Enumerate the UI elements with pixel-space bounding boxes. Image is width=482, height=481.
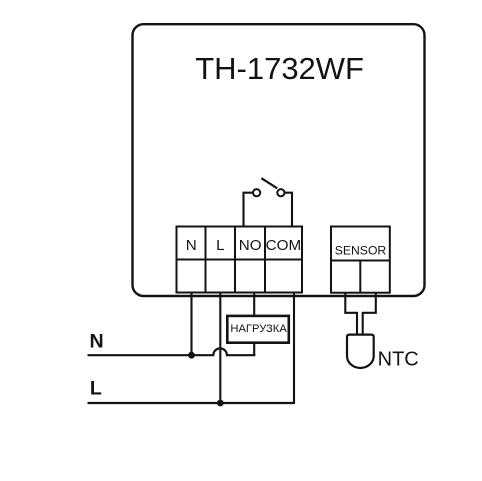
svg-text:НАГРУЗКА: НАГРУЗКА — [230, 323, 287, 335]
svg-text:N: N — [186, 237, 197, 254]
svg-text:COM: COM — [266, 237, 301, 254]
svg-text:TH-1732WF: TH-1732WF — [195, 51, 364, 86]
svg-text:N: N — [90, 331, 104, 353]
wire: N terminal down to N line — [190, 293, 192, 356]
svg-text:NTC: NTC — [378, 348, 419, 370]
junction dot: N wire on N line — [188, 352, 195, 359]
wire: NO terminal down to load box — [253, 293, 255, 317]
N line (neutral bus) with hop over L wire — [88, 348, 255, 355]
wire: switch right contact down to COM terminal — [285, 193, 293, 227]
wire: L terminal down to L line (crosses N line at hop) — [219, 293, 221, 404]
switch contact circle left — [253, 189, 260, 196]
switch contact circle right — [277, 189, 284, 196]
wire: NO terminal up to switch left contact — [244, 193, 254, 227]
svg-text:L: L — [216, 237, 224, 254]
NTC sensor bulb — [347, 335, 374, 368]
svg-text:SENSOR: SENSOR — [335, 244, 387, 258]
wire: sensor terminal 1 down — [345, 293, 357, 335]
switch lever (open contact arm) — [261, 178, 277, 188]
svg-text:L: L — [90, 377, 102, 399]
wire: sensor terminal 2 down — [363, 293, 376, 335]
load box НАГРУЗКА — [227, 316, 288, 343]
thermostat body TH-1732WF outline — [133, 24, 425, 296]
sensor terminal block SENSOR — [331, 227, 390, 293]
L line (live bus) — [88, 402, 295, 404]
junction dot: L wire on L line — [217, 400, 224, 407]
terminal block (N L NO COM) — [177, 227, 303, 293]
wire: load box bottom down to N line — [253, 343, 255, 356]
svg-text:NO: NO — [239, 237, 262, 254]
wire: COM terminal down and left to L line — [287, 293, 294, 404]
